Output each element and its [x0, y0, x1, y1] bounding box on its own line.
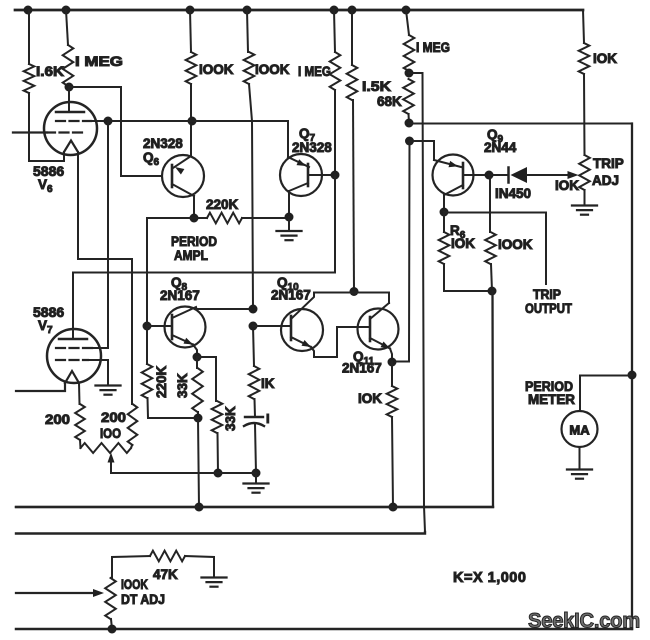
label Q8 2N167: [160, 275, 200, 303]
node Q7 base junction: [331, 171, 340, 180]
node DT ADJ bottom: [108, 625, 117, 634]
node Q6 collector junction: [190, 214, 199, 223]
ground below meter: [567, 470, 592, 479]
resistor 100K second: [244, 10, 255, 309]
wire V7 grid1 link: [90, 347, 100, 349]
svg-text:IOK: IOK: [358, 391, 382, 406]
label Q11 2N167: [342, 349, 382, 376]
transistor Q6 emitter: [173, 156, 191, 175]
node Q7 collector junction: [285, 213, 294, 222]
svg-text:V7: V7: [38, 318, 53, 336]
transistor Q10 circle: [281, 309, 323, 351]
capacitor 1uF top plate: [245, 416, 263, 418]
svg-text:PERIOD: PERIOD: [171, 234, 217, 249]
svg-text:IOOK: IOOK: [498, 237, 533, 252]
label 47K: [153, 567, 178, 582]
transistor Q11 circle: [358, 309, 399, 350]
svg-text:33K: 33K: [175, 373, 190, 398]
label 220K horizontal: [206, 197, 239, 212]
svg-text:IK: IK: [261, 376, 275, 391]
tube V7 envelope: [47, 329, 101, 383]
svg-text:IOOK: IOOK: [121, 577, 148, 592]
wire Q9 collector down: [443, 195, 445, 212]
svg-text:TRIP: TRIP: [593, 156, 624, 171]
transistor Q6 collector: [172, 184, 194, 196]
label PERIOD AMPL: [171, 234, 217, 263]
label 1 MEG third: [416, 40, 450, 55]
node top rail junction A1: [24, 6, 33, 15]
transistor Q9 base lead: [463, 174, 489, 176]
svg-text:DT ADJ: DT ADJ: [121, 592, 165, 607]
transistor Q7 circle: [280, 154, 322, 196]
transistor Q9 emitter: [434, 160, 461, 167]
svg-text:2N167: 2N167: [271, 288, 311, 303]
wire V6 grid2 left stub: [13, 131, 47, 133]
wire collector link Q10-Q11: [314, 293, 389, 304]
label 100K second: [255, 62, 290, 77]
tube V7 grid 1 dashes: [56, 347, 92, 349]
label Q7 2N328: [292, 126, 332, 155]
label 200 left: [45, 412, 70, 427]
wire diode to trip pot: [527, 174, 569, 176]
node top rail junction A6: [348, 6, 357, 15]
svg-text:SeekIC.com: SeekIC.com: [528, 609, 640, 633]
tube V6 grid 1 dashes: [56, 120, 91, 122]
svg-text:I MEG: I MEG: [75, 54, 123, 69]
tube V7 plate: [59, 338, 87, 340]
node 1MEG bottom / V6 plate: [65, 83, 74, 92]
potentiometer 100K DT ADJ: [105, 556, 150, 629]
svg-text:IOK: IOK: [593, 51, 617, 66]
transistor Q9 circle: [433, 155, 474, 196]
svg-text:IN450: IN450: [495, 186, 531, 201]
label 10K Q11: [358, 391, 382, 406]
label Q10 2N167: [271, 275, 311, 303]
label Q9 2N44: [484, 127, 517, 155]
node Q11 emitter junction: [388, 358, 397, 367]
label 68K: [377, 94, 402, 109]
transistor Q11 collector: [370, 303, 389, 319]
wire Q7 base to V7 plate link: [73, 175, 335, 339]
resistor 33K first: [192, 357, 203, 418]
tube V6 filament: [64, 141, 78, 153]
resistor 220K horizontal: [194, 213, 289, 224]
wire capacitor to ground node: [255, 424, 256, 473]
wire wiper to ground bus: [111, 472, 256, 474]
label 33K first: [175, 373, 190, 398]
label PERIOD METER: [525, 379, 575, 407]
transistor Q10 base bar: [290, 316, 293, 340]
node period meter junction: [628, 371, 637, 380]
wire 33K bottom to rail: [198, 418, 199, 507]
label 2N328 Q6: [143, 136, 183, 168]
tube V6 grid 2 dashes: [46, 131, 86, 133]
node 68K bottom junction: [405, 119, 414, 128]
wire 1.6K bottom to V6 filament: [29, 152, 64, 161]
svg-text:I.6K: I.6K: [36, 64, 64, 79]
svg-text:IOK: IOK: [555, 178, 579, 193]
transistor Q10 base lead: [253, 325, 291, 327]
resistor 68K: [403, 79, 414, 123]
resistor 1.6K: [24, 10, 35, 161]
resistor 10K top right: [579, 10, 590, 155]
wire 220K link: [148, 417, 198, 419]
node 220K-33K junction: [194, 414, 203, 423]
wire Q11 emitter down: [390, 349, 392, 363]
node 33K rail junction: [195, 503, 204, 512]
label 100K DT ADJ: [121, 577, 165, 607]
svg-text:220K: 220K: [206, 197, 239, 212]
svg-text:2N167: 2N167: [342, 361, 382, 376]
label 1 MEG second: [298, 64, 331, 79]
label SeekIC.com watermark: [528, 609, 640, 633]
resistor R6 10K: [439, 212, 492, 291]
transistor Q8 base bar: [171, 315, 174, 339]
transistor Q8 emitter: [172, 335, 193, 345]
wire junction to Q9 emitter: [410, 141, 435, 160]
wire trip output stub: [444, 213, 546, 285]
svg-text:2N328: 2N328: [143, 136, 183, 151]
label 5886 V7: [33, 304, 64, 336]
resistor 220K vertical: [142, 326, 153, 418]
wire plate feed to Q6 base riser: [69, 87, 162, 176]
wire Q8 collector to node: [197, 308, 254, 310]
svg-text:K=X 1,000: K=X 1,000: [453, 570, 526, 586]
svg-text:IOOK: IOOK: [199, 62, 234, 77]
node R6-100K junction: [488, 287, 497, 296]
node Q9 emitter junction: [405, 137, 414, 146]
wire meter tap: [580, 376, 632, 412]
node 33K second bottom junction: [214, 469, 223, 478]
transistor Q8 collector: [172, 307, 197, 318]
label 1.6K: [36, 64, 64, 79]
node Q9 collector junction: [440, 208, 449, 217]
transistor Q9 base bar: [462, 163, 465, 188]
wire V6 grid1 long riser to V7 grid: [100, 121, 108, 348]
label 5886 V6: [33, 163, 64, 195]
wire to long right branch: [409, 73, 425, 532]
resistor 200/100 right: [128, 404, 138, 448]
label 33K second: [223, 406, 238, 431]
label 1N450: [495, 186, 531, 201]
node Q9 base junction: [485, 171, 494, 180]
svg-text:IOO: IOO: [100, 426, 121, 441]
resistor 1MEG first: [63, 10, 74, 87]
resistor 200 left: [75, 404, 85, 448]
wire DT ADJ wiper input: [16, 589, 104, 597]
diode 1N450 triangle: [511, 167, 528, 183]
svg-text:200: 200: [45, 412, 70, 427]
wire Q7 collector ground stub: [288, 217, 290, 231]
svg-text:200: 200: [101, 410, 126, 425]
diode 1N450 cathode bar: [507, 168, 510, 183]
ground V7 grid2: [96, 386, 121, 395]
wire V7 grid2 to ground: [87, 360, 108, 385]
wire emitter bus down to Q11: [392, 141, 410, 362]
resistor 100K first: [186, 10, 197, 156]
tube V6 envelope: [44, 102, 97, 155]
label K=X1000: [453, 570, 526, 586]
wire lower rail 2: [16, 532, 425, 534]
tube V7 filament: [65, 371, 79, 383]
svg-text:68K: 68K: [377, 94, 402, 109]
potentiometer TRIP ADJ 10K: [579, 155, 590, 205]
node top rail junction A5: [330, 6, 339, 15]
node capacitor ground junction: [252, 469, 261, 478]
transistor Q9 collector: [444, 185, 463, 195]
label 1 MEG first: [75, 54, 123, 69]
label TRIP OUTPUT: [525, 287, 573, 316]
wire grid bus to Q7 emitter: [108, 121, 288, 157]
node Q10 base junction: [249, 322, 258, 331]
ground below Q7: [277, 231, 302, 240]
ground below 47K: [202, 578, 227, 587]
label 100K first: [199, 62, 234, 77]
capacitor 1uF bottom plate: [244, 423, 264, 426]
node V6 grid1 junction: [104, 117, 113, 126]
svg-text:Q6: Q6: [143, 150, 160, 168]
node Q8 collector junction: [249, 305, 258, 314]
svg-text:ADJ: ADJ: [592, 173, 619, 188]
potentiometer TRIP ADJ wiper arrow: [568, 171, 579, 179]
svg-text:220K: 220K: [154, 365, 169, 398]
label R6 10K: [450, 223, 475, 251]
transistor Q7 base lead: [308, 174, 335, 176]
resistor 100K trip: [485, 175, 496, 291]
resistor 1MEG second: [330, 10, 341, 175]
svg-text:METER: METER: [528, 392, 575, 407]
node Q6 emitter grid crossing: [188, 117, 197, 126]
transistor Q8 circle: [165, 307, 206, 348]
svg-text:OUTPUT: OUTPUT: [525, 301, 573, 316]
wire junction down to lower rail: [16, 291, 493, 507]
wire Q7 collector down: [288, 191, 290, 217]
svg-text:2N167: 2N167: [160, 288, 200, 303]
wire Q6 collector to Q8 base: [147, 218, 194, 326]
label 10K top right: [593, 51, 617, 66]
transistor Q11 base bar: [369, 317, 372, 341]
label capacitor 1: [266, 411, 270, 426]
resistor 47K: [150, 551, 214, 577]
node 1MEG-68K junction: [405, 69, 414, 78]
resistor 1MEG third: [404, 10, 415, 73]
wire V6 filament right leg: [78, 152, 132, 404]
potentiometer 200/100 wiper arrow: [108, 453, 115, 474]
potentiometer 200/100 bottom zigzag: [81, 443, 132, 453]
svg-text:MA: MA: [569, 423, 590, 438]
svg-text:I MEG: I MEG: [416, 40, 450, 55]
resistor 1K: [249, 326, 260, 417]
wire Q9 base to diode: [489, 174, 509, 176]
resistor 33K second: [197, 357, 222, 473]
label 1K: [261, 376, 275, 391]
ground below TRIP ADJ: [572, 206, 597, 215]
transistor Q7 collector: [289, 183, 308, 191]
transistor Q10 collector: [291, 293, 314, 320]
wire right frame vertical: [631, 124, 633, 630]
svg-text:TRIP: TRIP: [533, 287, 561, 302]
node 1.5K bottom junction: [350, 287, 359, 296]
transistor Q11 emitter: [370, 338, 390, 349]
label 100K trip: [498, 237, 533, 252]
svg-text:I MEG: I MEG: [298, 64, 331, 79]
wire meter to ground: [579, 447, 581, 469]
svg-text:I: I: [266, 411, 270, 426]
svg-text:V6: V6: [38, 177, 53, 195]
ground below capacitor: [244, 484, 269, 493]
wire V6 grid1 to node: [90, 120, 108, 122]
transistor Q6 circle: [162, 155, 204, 197]
node top rail junction A4: [243, 6, 252, 15]
transistor Q7 emitter: [288, 157, 309, 167]
meter MA circle: [562, 411, 598, 447]
label 10K trip pot: [555, 178, 579, 193]
wire V7 cathode right leg: [78, 383, 81, 404]
wire 68K node to right frame: [409, 123, 632, 125]
node Q8 emitter junction: [193, 353, 202, 362]
wire ground stub: [255, 473, 257, 483]
label 200 100 right: [100, 410, 126, 441]
tube V7 grid 2 dashes: [56, 359, 88, 361]
label 220K vertical: [154, 365, 169, 398]
tube V6 plate: [56, 87, 84, 112]
wire Q8 emitter down: [193, 345, 197, 358]
wire Q10 emitter to Q11 base: [311, 327, 370, 357]
transistor Q6 base bar: [171, 165, 174, 187]
node Q8 base junction: [143, 322, 152, 331]
svg-text:IOK: IOK: [451, 236, 475, 251]
wire lower rail 1: [16, 506, 493, 508]
wire top supply rail: [15, 9, 583, 12]
svg-text:I.5K: I.5K: [362, 79, 391, 94]
wire Q6 collector down: [193, 196, 195, 218]
label 1.5K: [362, 79, 391, 94]
resistor 1.5K: [347, 10, 358, 291]
resistor 10K Q11: [387, 362, 398, 507]
node 10K rail junction: [389, 503, 398, 512]
svg-text:47K: 47K: [153, 567, 178, 582]
svg-text:33K: 33K: [223, 406, 238, 431]
transistor Q7 base bar: [307, 164, 310, 186]
svg-text:AMPL: AMPL: [174, 248, 208, 263]
svg-text:2N328: 2N328: [292, 140, 332, 155]
svg-text:IOOK: IOOK: [255, 62, 290, 77]
transistor Q10 emitter: [291, 337, 311, 347]
transistor Q8 base lead: [147, 325, 172, 327]
svg-text:2N44: 2N44: [484, 140, 517, 155]
wire V7 cathode left stub: [16, 383, 65, 391]
wire bottom rail: [16, 628, 632, 631]
label MA: [569, 423, 590, 438]
label TRIP ADJ: [592, 156, 624, 188]
node top rail junction A3: [186, 6, 195, 15]
node top rail junction A7: [402, 6, 411, 15]
node top rail junction A2: [62, 6, 71, 15]
